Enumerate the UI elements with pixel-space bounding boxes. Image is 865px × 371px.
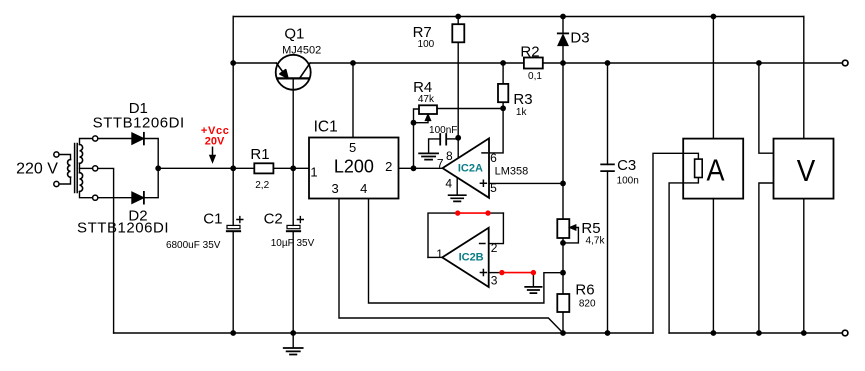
capacitor C2 plus plate xyxy=(287,225,300,228)
transformer secondary top coil xyxy=(80,145,83,164)
potentiometer R5 wiper arrow xyxy=(569,225,576,231)
svg-text:1: 1 xyxy=(310,165,317,180)
wire IC2B pin 1 lead xyxy=(428,256,442,258)
svg-text:C2: C2 xyxy=(264,211,283,228)
red node dots xyxy=(455,210,460,215)
ground IC2A pin 4 xyxy=(449,195,466,201)
ammeter shunt xyxy=(695,159,703,177)
wire secondary center tap lead xyxy=(80,167,93,169)
svg-text:8: 8 xyxy=(446,149,453,163)
transformer core xyxy=(75,144,78,193)
wire Vcc rail left segment xyxy=(233,62,276,64)
wire IC2B feedback top left black part xyxy=(488,212,503,214)
transformer secondary bottom coil xyxy=(80,173,83,192)
wire IC2B pin 2 feedback up xyxy=(489,213,504,244)
svg-text:C3: C3 xyxy=(617,157,636,174)
terminal secondary top xyxy=(93,136,98,141)
wire IC2B feedback top left of red xyxy=(428,213,458,257)
wire 100nF left lead to ground xyxy=(429,139,441,153)
capacitor C1 bottom plate xyxy=(227,230,240,232)
terminal output plus xyxy=(842,60,848,66)
potentiometer R5 body xyxy=(557,219,569,238)
transistor Q1 collector diagonal xyxy=(300,63,311,78)
wire R5 wiper xyxy=(563,228,578,243)
resistor R3 xyxy=(498,84,508,102)
svg-text:3: 3 xyxy=(331,181,338,196)
wire center tap down to bottom rail xyxy=(93,168,114,333)
svg-text:D3: D3 xyxy=(570,30,589,47)
red wire IC2B feedback xyxy=(458,212,488,214)
wire D2 cathode to main node xyxy=(144,168,158,197)
svg-text:A: A xyxy=(707,153,725,188)
svg-text:R6: R6 xyxy=(575,282,594,299)
resistor R2 xyxy=(524,58,543,69)
svg-text:R1: R1 xyxy=(250,146,269,163)
svg-text:7: 7 xyxy=(437,156,444,170)
wire R6 bottom xyxy=(562,312,564,333)
svg-text:5: 5 xyxy=(490,181,497,195)
svg-text:STTB1206DI: STTB1206DI xyxy=(77,219,169,236)
Vcc arrow xyxy=(212,147,214,156)
capacitor C3 plates xyxy=(601,164,614,171)
svg-text:100n: 100n xyxy=(617,175,639,186)
svg-text:L200: L200 xyxy=(334,157,374,177)
wire R4 wiper to left lead xyxy=(414,120,429,123)
wire C3 top lead xyxy=(607,63,609,164)
diode D1 xyxy=(132,133,144,145)
wire IC1 pin 3 to bottom rail with diagonal xyxy=(339,199,563,334)
capacitor C1 plus plate xyxy=(227,225,240,228)
svg-text:10µF 35V: 10µF 35V xyxy=(271,238,315,249)
capacitor 100nF plates xyxy=(440,134,446,145)
wire R3 bottom lead to node xyxy=(502,102,504,108)
wire Q1 base down to main node xyxy=(292,78,294,168)
wire C1 bottom lead xyxy=(232,231,234,333)
svg-text:820: 820 xyxy=(579,299,596,310)
svg-text:IC1: IC1 xyxy=(314,119,338,136)
svg-text:1k: 1k xyxy=(516,107,528,118)
wire Vcc rail right of Q1 xyxy=(310,62,841,64)
ammeter A box xyxy=(683,139,743,199)
wire R4 left lead down to IC2A output node xyxy=(414,109,420,168)
svg-text:3: 3 xyxy=(491,273,498,287)
wire IC2A pin 4 to ground xyxy=(456,178,458,195)
wire IC1 pin 2 to IC2A output xyxy=(399,167,443,169)
wire V meter bottom xyxy=(803,199,805,333)
ground IC2B pin 3 xyxy=(525,287,541,293)
wire secondary bottom lead xyxy=(80,192,93,198)
capacitor C2 bottom plate xyxy=(287,230,300,232)
wire R3 top lead xyxy=(502,63,504,84)
wire 100nF right lead to pin8 line xyxy=(446,138,458,140)
terminal primary top xyxy=(54,152,59,157)
op-amp IC2B minus xyxy=(480,243,485,245)
IC1 L200 box xyxy=(309,138,399,199)
terminal secondary bottom xyxy=(93,195,98,200)
svg-text:6800uF 35V: 6800uF 35V xyxy=(166,240,221,251)
svg-text:Q1: Q1 xyxy=(284,26,304,43)
wire bottom rail right segment xyxy=(669,332,842,334)
wire top rail xyxy=(233,16,804,18)
svg-text:2: 2 xyxy=(491,241,498,255)
wire IC2B pin3 ground stem xyxy=(532,273,534,287)
svg-text:IC2B: IC2B xyxy=(459,252,484,264)
svg-text:220 V: 220 V xyxy=(16,160,58,177)
potentiometer R4 body xyxy=(419,105,437,114)
wire D3 cathode to top rail xyxy=(562,17,564,34)
wire IC2A pin 5 to R5 line xyxy=(489,182,563,184)
wire primary bottom terminal to coil xyxy=(59,177,71,184)
wire R7 top lead xyxy=(457,17,459,25)
svg-text:2,2: 2,2 xyxy=(255,180,269,191)
wire C2 bottom lead xyxy=(292,231,294,333)
transistor Q1 emitter diagonal xyxy=(276,63,287,78)
svg-text:4: 4 xyxy=(360,181,367,196)
svg-text:47k: 47k xyxy=(418,94,435,105)
wire IC1 pin 5 to Vcc rail xyxy=(352,63,354,138)
svg-text:R2: R2 xyxy=(520,43,539,60)
wire IC1 pin 4 to R5/R6 node xyxy=(369,199,564,304)
wire A meter upper left to shunt xyxy=(653,153,698,333)
svg-text:100nF: 100nF xyxy=(429,125,457,136)
wire top rail down to A meter top xyxy=(712,17,714,139)
svg-text:5: 5 xyxy=(349,140,356,155)
wire secondary coil middle connector xyxy=(79,163,81,172)
wire R5 to R6 xyxy=(562,238,564,294)
wire A meter bottom xyxy=(712,199,714,333)
wire R7 bottom lead down to IC2A pin 8 xyxy=(457,42,459,157)
wire transformer secondary top to D1 xyxy=(98,138,132,140)
resistor R7 xyxy=(452,24,464,42)
wire top rail right corner down to V meter top xyxy=(803,17,805,139)
terminal primary bottom xyxy=(54,181,59,186)
svg-text:LM358: LM358 xyxy=(495,166,529,178)
svg-text:1: 1 xyxy=(436,247,443,261)
svg-text:20V: 20V xyxy=(205,136,225,148)
wire left vertical from top rail to main node xyxy=(232,17,234,169)
wire V meter upper left connection xyxy=(759,63,774,153)
wire node to IC2A pin 6 xyxy=(489,108,503,153)
wire secondary top lead xyxy=(80,139,93,145)
svg-text:R3: R3 xyxy=(513,91,532,108)
op-amp IC2A xyxy=(443,138,490,197)
op-amp IC2B plus xyxy=(480,270,486,276)
ground bottom rail xyxy=(292,333,294,348)
red wire IC2B pin3 to ground xyxy=(502,272,534,274)
svg-text:6: 6 xyxy=(490,151,497,165)
terminal output minus xyxy=(842,330,848,336)
diode D2 xyxy=(132,192,144,204)
wire D3 node down to R5 top xyxy=(562,63,564,219)
transistor Q1 emitter arrow xyxy=(280,70,288,78)
voltmeter V box xyxy=(774,139,834,199)
junction dots xyxy=(230,60,236,66)
capacitor C1 plus sign xyxy=(237,217,243,223)
wire R1 to IC1 pin 1 xyxy=(273,167,309,169)
wire C1 top lead xyxy=(232,168,234,225)
wire C3 bottom lead xyxy=(607,171,609,333)
wire D3 anode to Vcc rail xyxy=(562,46,564,63)
wire V meter lower left connection xyxy=(759,183,774,333)
svg-text:4,7k: 4,7k xyxy=(586,235,606,246)
transistor Q1 base bar xyxy=(278,77,308,79)
svg-text:IC2A: IC2A xyxy=(458,163,483,175)
diode D3 xyxy=(558,34,568,45)
op-amp IC2A plus xyxy=(480,180,486,186)
svg-text:C1: C1 xyxy=(203,211,222,228)
wire R4 to R3 node xyxy=(437,108,503,110)
wire bottom rail left segment xyxy=(114,332,653,334)
resistor R6 xyxy=(557,294,569,312)
wire D1 cathode to main node xyxy=(144,139,158,169)
wire transformer secondary bottom to D2 xyxy=(98,197,132,199)
op-amp IC2A minus xyxy=(482,152,487,154)
ground under 100nF xyxy=(419,153,438,159)
resistor R1 xyxy=(254,163,273,173)
svg-text:0,1: 0,1 xyxy=(528,71,542,82)
transformer T1 primary coil xyxy=(68,160,71,178)
svg-text:MJ4502: MJ4502 xyxy=(282,44,321,56)
potentiometer R4 wiper arrow xyxy=(425,114,431,121)
svg-text:STTB1206DI: STTB1206DI xyxy=(93,114,185,131)
wire primary top terminal to coil xyxy=(59,155,71,160)
wire C2 top lead xyxy=(292,168,294,225)
transistor Q1 body xyxy=(276,55,311,90)
wire IC2B pin 3 black part xyxy=(489,272,502,274)
svg-text:V: V xyxy=(797,153,816,188)
wire A meter lower left from shunt xyxy=(669,178,698,334)
op-amp IC2B xyxy=(442,228,489,287)
terminal center tap xyxy=(93,166,98,171)
wire main line from bridge to R1 xyxy=(158,167,254,169)
svg-text:4: 4 xyxy=(445,176,452,190)
svg-text:2: 2 xyxy=(385,159,392,174)
capacitor C2 plus sign xyxy=(297,217,303,223)
svg-text:100: 100 xyxy=(418,39,435,50)
